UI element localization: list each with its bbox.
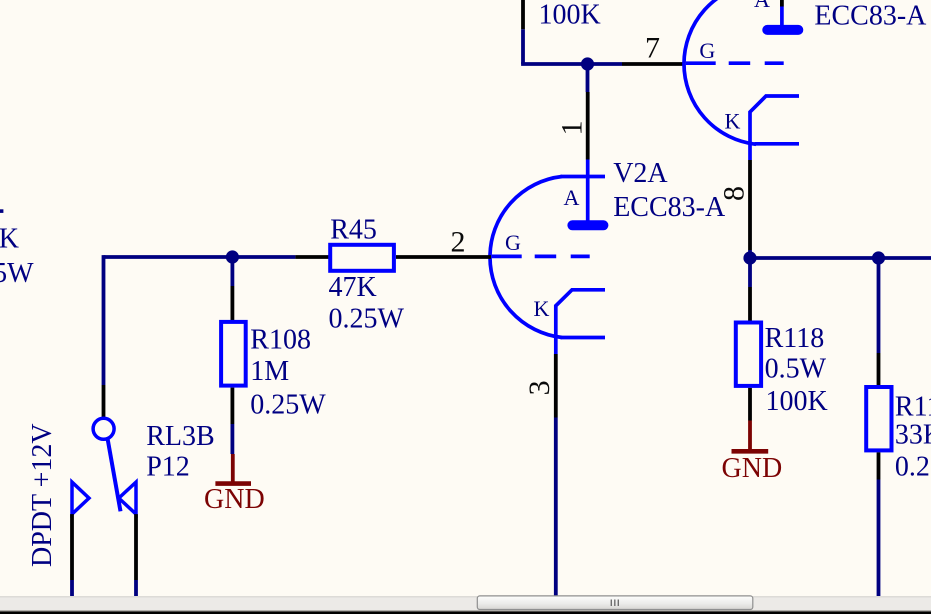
wire left vertical (navy): [102, 255, 106, 385]
wire horizontal right bus: [750, 256, 931, 260]
ground symbol left: bar: [215, 481, 251, 486]
svg-text:R45: R45: [330, 214, 377, 245]
pin 1 anode pin of V2A (black): [586, 92, 590, 160]
R45 left pin (black): [295, 255, 330, 259]
off-screen resistor left: designator serif fragment: [0, 209, 3, 213]
relay right contact pin (black): [134, 514, 138, 580]
svg-text:47K: 47K: [329, 272, 377, 303]
pin 8 cathode pin of V2B (black): [748, 160, 752, 250]
R108 bottom pin (black): [230, 388, 234, 424]
node junction at top wire: [581, 57, 594, 70]
V2A anode plate: [572, 220, 603, 230]
wire cathode V2A down to sheet edge (navy): [554, 418, 558, 597]
svg-text:0.25W: 0.25W: [0, 258, 34, 289]
scrollbar track: [0, 596, 931, 611]
svg-text:A: A: [564, 185, 580, 210]
ground symbol left: stem: [231, 454, 235, 482]
V2A envelope bottom chord: [561, 336, 606, 340]
svg-text:3: 3: [523, 380, 556, 395]
node junction right: [872, 251, 885, 264]
wire right contact to sheet edge (navy): [134, 580, 138, 596]
V2B anode pin stub (black): [780, 0, 784, 7]
svg-text:GND: GND: [722, 453, 783, 484]
V2B grid dashed line: [686, 61, 784, 65]
V2A anode lead (blue): [586, 160, 590, 222]
svg-text:1: 1: [556, 121, 589, 136]
svg-text:DPDT +12V: DPDT +12V: [27, 423, 58, 567]
relay RL3B switch: pole pin (black): [102, 385, 106, 418]
resistor R108 body: [221, 322, 246, 386]
wire R119 to sheet edge (navy): [877, 480, 881, 597]
relay contact triangle left: [72, 482, 89, 514]
relay left contact pin (black): [70, 514, 74, 580]
svg-text:K: K: [725, 109, 741, 134]
wire top-left vertical (navy): [521, 29, 525, 64]
svg-text:RL3B: RL3B: [146, 421, 214, 452]
svg-text:0.25W: 0.25W: [329, 303, 405, 334]
svg-text:33K: 33K: [895, 420, 931, 451]
wire cathode V2B to junction (navy): [748, 250, 752, 258]
V2B envelope bottom chord: [755, 142, 800, 146]
status bar dark edge: [0, 610, 931, 611]
V2B anode lead (blue): [780, 7, 784, 27]
op V2A tube envelope arc: [490, 177, 562, 338]
tube V2B (upper right) envelope arc: [684, 0, 756, 144]
svg-text:R118: R118: [765, 323, 825, 354]
svg-text:100K: 100K: [0, 223, 19, 254]
wire left contact to sheet edge (navy): [70, 580, 74, 596]
ground symbol right: stem: [748, 421, 752, 450]
svg-text:100K: 100K: [766, 386, 828, 417]
wire R108 to ground (navy): [230, 424, 234, 454]
resistor R118 body: [736, 323, 761, 386]
resistor R45 body: [330, 245, 394, 271]
R119 bottom pin (black): [877, 452, 881, 479]
ground symbol right: bar: [732, 449, 769, 454]
svg-text:V2A: V2A: [613, 158, 668, 189]
V2A cathode bent line: [556, 290, 605, 354]
node junction left: [743, 251, 756, 264]
svg-text:7: 7: [645, 32, 660, 65]
wire junction2 down to R119 (navy): [877, 258, 881, 353]
V2B anode plate: [767, 25, 798, 35]
wire junction down to R108 (navy): [230, 257, 234, 286]
svg-text:K: K: [534, 296, 550, 321]
R108 top pin (black): [230, 286, 234, 320]
bottom black strip: [0, 612, 931, 614]
scrollbar thumb grip: [611, 600, 618, 607]
svg-text:G: G: [699, 38, 715, 63]
wire junction to R118 (navy): [748, 258, 752, 287]
relay contact triangle right: [119, 482, 136, 514]
svg-text:G: G: [505, 230, 521, 255]
pin 2 lead (grid of V2A + R45 right pin, black): [396, 255, 491, 259]
relay switch pivot circle: [93, 418, 114, 439]
svg-text:8: 8: [718, 186, 751, 201]
scrollbar thumb: [477, 596, 753, 610]
pin 3 cathode pin of V2A (black): [554, 354, 558, 418]
V2A grid dashed line: [492, 255, 590, 259]
svg-text:0.25W: 0.25W: [250, 389, 326, 420]
svg-text:A: A: [754, 0, 770, 12]
V2A envelope top chord: [561, 175, 606, 179]
pin 7 lead (grid pin of upper triode, black): [622, 62, 685, 66]
wire top horizontal to junction: [521, 62, 622, 66]
svg-text:P12: P12: [146, 451, 190, 482]
pin 1 wire stub below junction (navy): [586, 64, 590, 92]
wire left horizontal: [104, 255, 296, 259]
svg-text:100K: 100K: [539, 0, 601, 31]
R118 top pin (black): [748, 287, 752, 321]
svg-text:ECC83-A: ECC83-A: [613, 192, 726, 223]
node junction at R108: [226, 250, 239, 263]
relay switch lever: [108, 438, 121, 511]
svg-text:1M: 1M: [250, 356, 289, 387]
svg-text:0.5W: 0.5W: [765, 353, 827, 384]
svg-text:0.25W: 0.25W: [895, 451, 931, 482]
resistor R119 body (clipped at right edge): [866, 387, 891, 450]
svg-text:2: 2: [451, 225, 466, 258]
svg-text:GND: GND: [204, 484, 265, 515]
R118 bottom pin (black): [748, 388, 752, 421]
V2B cathode bent line: [750, 96, 799, 160]
svg-text:R119: R119: [895, 392, 931, 423]
wire top-left vertical pin (black): [521, 0, 525, 29]
svg-text:ECC83-A: ECC83-A: [814, 0, 927, 31]
svg-text:R108: R108: [250, 325, 311, 356]
R119 top pin (black): [877, 353, 881, 385]
